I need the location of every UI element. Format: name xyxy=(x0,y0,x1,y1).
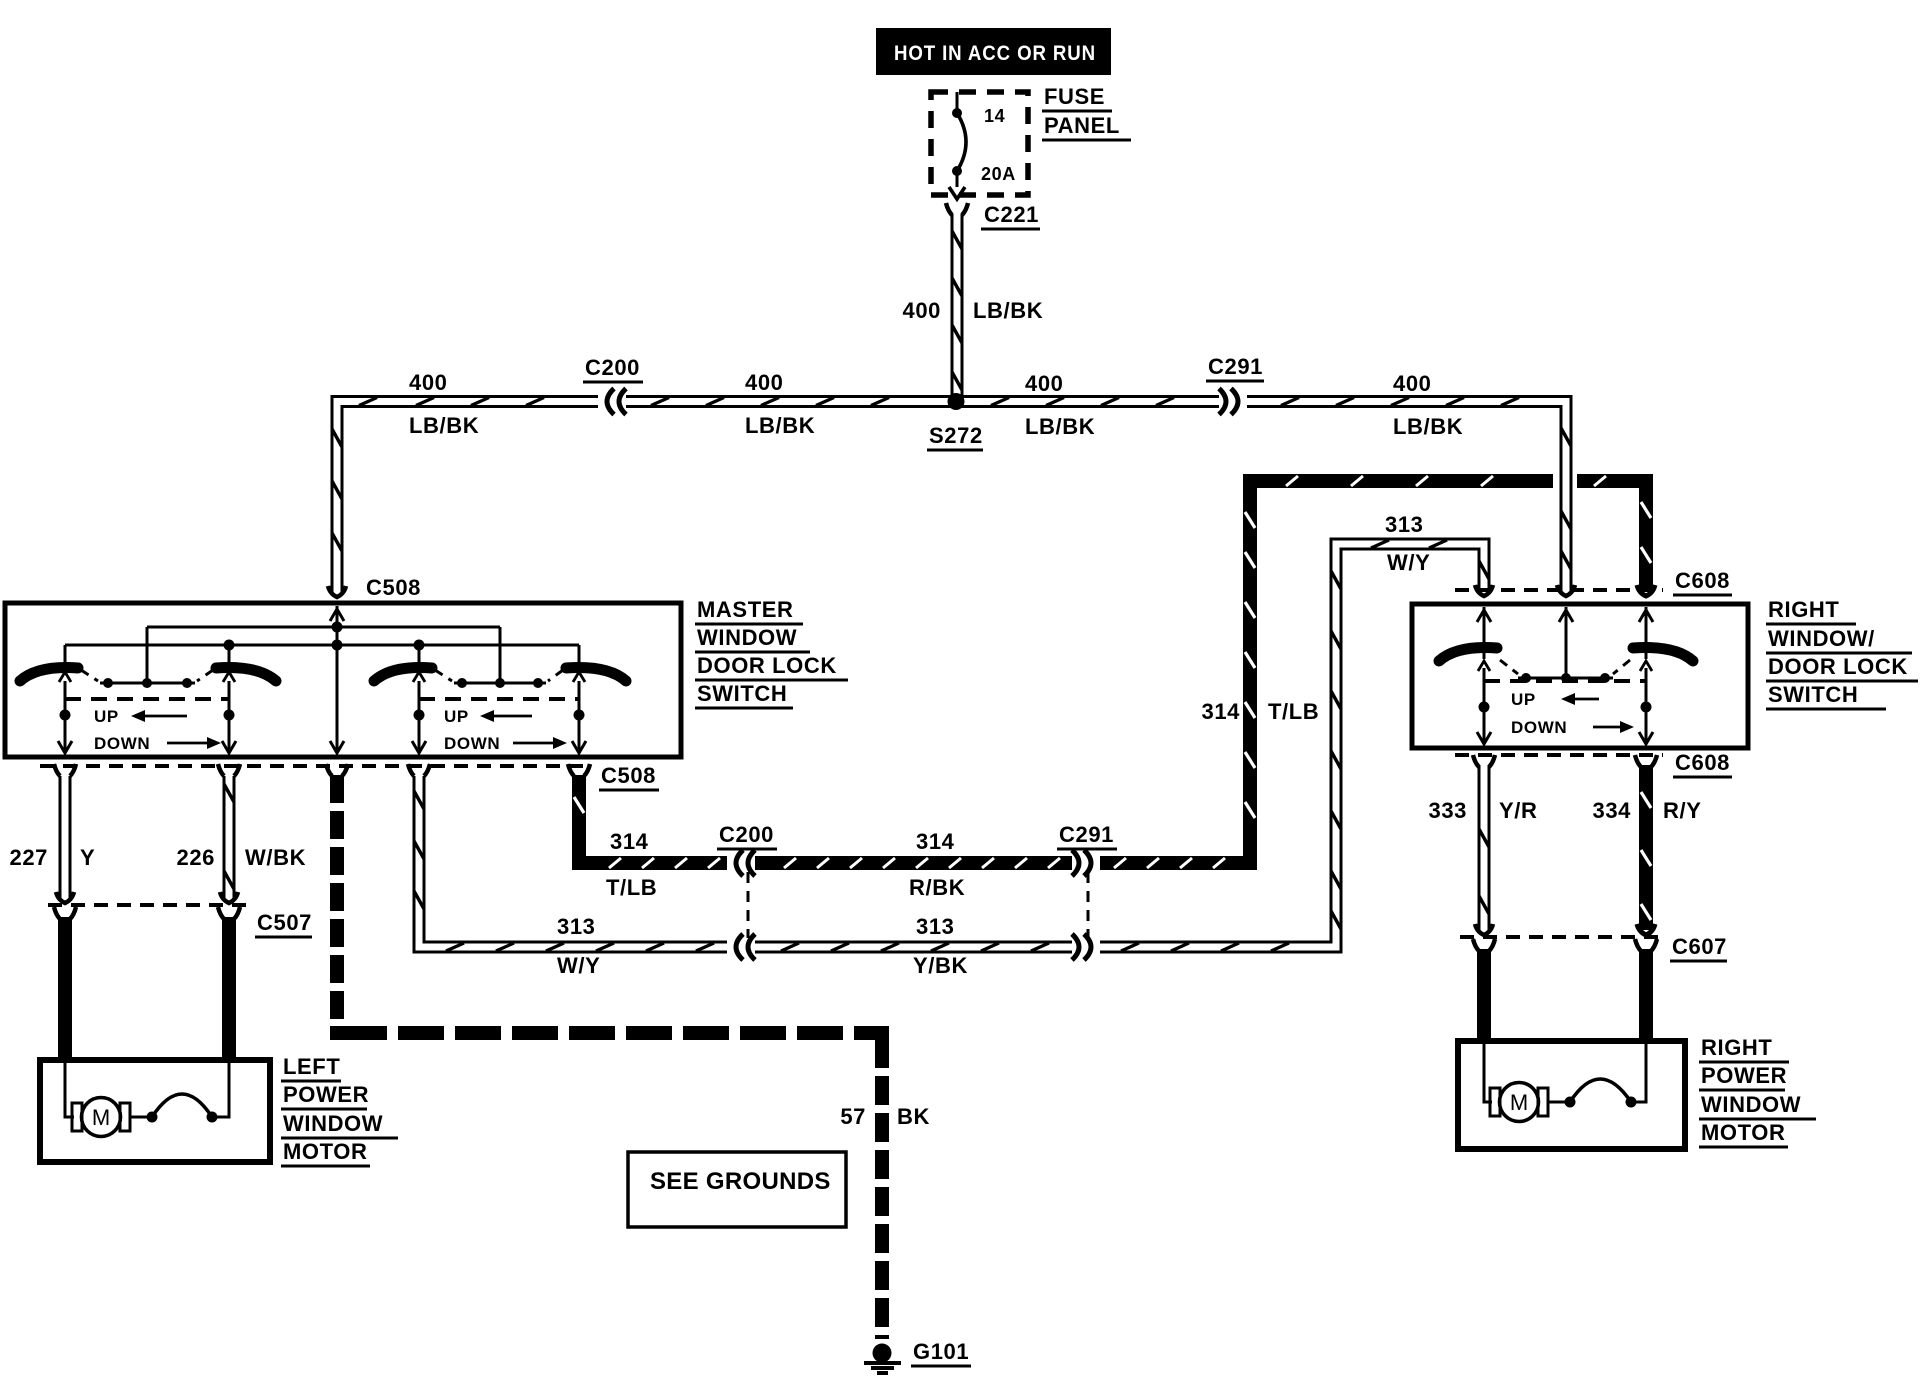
connector C291 on wire 314 xyxy=(1057,822,1117,876)
svg-text:BK: BK xyxy=(897,1104,930,1129)
wire 400 LB/BK vertical from fuse panel xyxy=(952,214,962,401)
svg-text:MASTER: MASTER xyxy=(697,597,794,622)
wire left motor feed (right) xyxy=(222,917,236,1062)
svg-text:M: M xyxy=(92,1105,110,1130)
label 334 R/Y xyxy=(1592,798,1701,823)
svg-text:W/Y: W/Y xyxy=(557,953,600,978)
switch wiper contacts xyxy=(59,627,235,688)
switch wiper contacts xyxy=(413,627,585,688)
svg-text:C508: C508 xyxy=(601,763,656,788)
connector C608 top row xyxy=(1455,568,1732,596)
label 400 LB/BK segment 4 xyxy=(1393,371,1463,439)
dashed tie C200 between rows xyxy=(747,872,750,938)
fuse F14 20A xyxy=(949,92,966,199)
svg-text:57: 57 xyxy=(840,1104,866,1129)
right switch rocker levers xyxy=(1439,648,1693,661)
svg-text:400: 400 xyxy=(745,370,784,395)
label RIGHT WINDOW/ DOOR LOCK SWITCH xyxy=(1766,597,1918,709)
svg-text:M: M xyxy=(1510,1090,1528,1115)
svg-text:C508: C508 xyxy=(366,575,421,600)
svg-text:RIGHT: RIGHT xyxy=(1768,597,1839,622)
svg-text:WINDOW: WINDOW xyxy=(1701,1092,1801,1117)
svg-text:G101: G101 xyxy=(913,1339,969,1364)
connector C291 on wire 313 xyxy=(1072,939,1100,955)
svg-text:313: 313 xyxy=(557,914,596,939)
connector C200 on bus xyxy=(583,355,643,415)
svg-text:20A: 20A xyxy=(981,164,1016,184)
master switch center output leg xyxy=(330,645,344,753)
connector C608 bottom row xyxy=(1455,750,1732,777)
svg-text:Y: Y xyxy=(80,845,95,870)
label 400 LB/BK (fuse drop) xyxy=(902,298,1043,323)
svg-text:334: 334 xyxy=(1592,798,1631,823)
switch rocker levers at x=65-229 xyxy=(20,668,276,681)
svg-text:DOWN: DOWN xyxy=(1511,718,1567,737)
right switch output legs xyxy=(1477,668,1653,744)
wire 333 Y/R xyxy=(1479,765,1489,930)
svg-text:LB/BK: LB/BK xyxy=(409,413,479,438)
svg-text:C291: C291 xyxy=(1208,354,1263,379)
svg-text:WINDOW: WINDOW xyxy=(697,625,797,650)
label FUSE PANEL xyxy=(1042,84,1131,140)
label 226 W/BK xyxy=(176,845,306,870)
svg-text:T/LB: T/LB xyxy=(606,875,657,900)
master window door lock switch U-master box xyxy=(5,603,681,757)
svg-text:400: 400 xyxy=(902,298,941,323)
svg-text:UP: UP xyxy=(444,707,469,726)
svg-text:MOTOR: MOTOR xyxy=(283,1139,367,1164)
label RIGHT POWER WINDOW MOTOR xyxy=(1699,1035,1816,1147)
connector C200 on wire 314 xyxy=(717,822,777,876)
svg-text:Y/BK: Y/BK xyxy=(913,953,968,978)
power feed banner HOT IN ACC OR RUN xyxy=(876,28,1111,75)
svg-text:LB/BK: LB/BK xyxy=(1393,414,1463,439)
label 314 R/BK xyxy=(909,829,965,900)
svg-text:UP: UP xyxy=(94,707,119,726)
wire 226 W/BK xyxy=(224,776,234,899)
svg-text:400: 400 xyxy=(409,370,448,395)
label 57 BK xyxy=(840,1104,930,1129)
svg-text:WINDOW/: WINDOW/ xyxy=(1768,626,1875,651)
wire 227 Y xyxy=(59,776,72,899)
svg-text:R/Y: R/Y xyxy=(1663,798,1701,823)
svg-text:R/BK: R/BK xyxy=(909,875,965,900)
ground G101 xyxy=(864,1339,971,1373)
label 313 W/Y (upper) xyxy=(1385,512,1430,575)
svg-text:227: 227 xyxy=(9,845,48,870)
svg-text:SWITCH: SWITCH xyxy=(1768,682,1858,707)
svg-text:RIGHT: RIGHT xyxy=(1701,1035,1772,1060)
label 313 Y/BK xyxy=(913,914,968,978)
right switch UP/DOWN arrows xyxy=(1511,690,1634,737)
svg-text:T/LB: T/LB xyxy=(1268,699,1319,724)
svg-text:LB/BK: LB/BK xyxy=(1025,414,1095,439)
note box SEE GROUNDS xyxy=(628,1152,846,1227)
svg-text:C221: C221 xyxy=(984,202,1039,227)
svg-text:C607: C607 xyxy=(1672,934,1727,959)
right switch wiper contacts xyxy=(1478,630,1652,683)
left power window motor M-left box xyxy=(40,1060,270,1162)
fuse panel box (dashed) xyxy=(931,92,1028,195)
svg-text:314: 314 xyxy=(916,829,955,854)
svg-text:C608: C608 xyxy=(1675,568,1730,593)
svg-text:14: 14 xyxy=(984,106,1005,126)
label 313 W/Y (lower) xyxy=(557,914,600,978)
svg-text:314: 314 xyxy=(1201,699,1240,724)
svg-text:W/BK: W/BK xyxy=(245,845,306,870)
svg-text:HOT IN ACC OR RUN: HOT IN ACC OR RUN xyxy=(894,42,1096,65)
splice S272 xyxy=(927,393,983,450)
svg-text:314: 314 xyxy=(610,829,649,854)
master switch UP/DOWN arrows right unit xyxy=(444,707,567,753)
connector C200 on wire 313 xyxy=(727,939,755,955)
connector C508 bottom row xyxy=(40,763,659,790)
svg-text:POWER: POWER xyxy=(1701,1063,1787,1088)
right power window motor M-right box xyxy=(1458,1041,1685,1149)
svg-text:WINDOW: WINDOW xyxy=(283,1111,383,1136)
svg-text:313: 313 xyxy=(1385,512,1424,537)
svg-text:400: 400 xyxy=(1025,371,1064,396)
svg-text:313: 313 xyxy=(916,914,955,939)
right switch entries xyxy=(1477,607,1653,630)
svg-text:DOOR LOCK: DOOR LOCK xyxy=(697,653,837,678)
motor M (left) symbol xyxy=(65,1063,229,1137)
wire 57 BK ground run xyxy=(330,775,889,1339)
svg-text:C507: C507 xyxy=(257,910,312,935)
svg-text:DOWN: DOWN xyxy=(444,734,500,753)
wire 400 LB/BK bus left/right with corners xyxy=(332,398,1571,593)
svg-text:C291: C291 xyxy=(1059,822,1114,847)
label 314 T/LB (riser) xyxy=(1201,699,1319,724)
svg-text:333: 333 xyxy=(1428,798,1467,823)
svg-text:MOTOR: MOTOR xyxy=(1701,1120,1785,1145)
svg-text:UP: UP xyxy=(1511,690,1536,709)
wire right motor feed (left) xyxy=(1477,949,1491,1043)
connector C507 xyxy=(48,892,312,937)
svg-text:C200: C200 xyxy=(719,822,774,847)
master switch UP/DOWN arrows left unit xyxy=(94,707,221,753)
svg-text:400: 400 xyxy=(1393,371,1432,396)
svg-text:FUSE: FUSE xyxy=(1044,84,1105,109)
svg-text:S272: S272 xyxy=(929,423,983,448)
label 400 LB/BK segment 3 xyxy=(1025,371,1095,439)
svg-text:C608: C608 xyxy=(1675,750,1730,775)
master switch internal feed bus xyxy=(65,606,579,651)
svg-text:LB/BK: LB/BK xyxy=(745,413,815,438)
dashed tie C291 between rows xyxy=(1087,872,1090,938)
motor M (right) symbol xyxy=(1484,1044,1646,1122)
switch rocker levers at x=419-579 xyxy=(374,668,626,681)
label 400 LB/BK segment 2 xyxy=(745,370,815,438)
connector C508 top xyxy=(328,575,421,602)
svg-text:DOWN: DOWN xyxy=(94,734,150,753)
label 400 LB/BK segment 1 xyxy=(409,370,479,438)
label 314 T/LB (row) xyxy=(606,829,657,900)
connector C291 on bus xyxy=(1206,354,1264,415)
connector C607 xyxy=(1460,924,1727,961)
svg-text:DOOR LOCK: DOOR LOCK xyxy=(1768,654,1908,679)
wire 314 T/LB / R/BK xyxy=(574,476,1651,868)
svg-text:POWER: POWER xyxy=(283,1082,369,1107)
wire left motor feed (left) xyxy=(58,917,72,1062)
wire 313 W/Y / Y/BK xyxy=(414,540,1489,951)
label LEFT POWER WINDOW MOTOR xyxy=(281,1054,398,1166)
connector C221 xyxy=(946,202,1040,229)
label 227 Y xyxy=(9,845,95,870)
right window door lock switch U-right box xyxy=(1412,604,1748,748)
svg-text:SEE GROUNDS: SEE GROUNDS xyxy=(650,1168,831,1195)
label MASTER WINDOW DOOR LOCK SWITCH xyxy=(695,597,848,708)
svg-text:W/Y: W/Y xyxy=(1387,550,1430,575)
svg-text:226: 226 xyxy=(176,845,215,870)
svg-text:C200: C200 xyxy=(585,355,640,380)
svg-text:LEFT: LEFT xyxy=(283,1054,340,1079)
label 333 Y/R xyxy=(1428,798,1537,823)
switch output legs xyxy=(58,681,236,753)
switch output legs xyxy=(412,681,586,753)
svg-text:LB/BK: LB/BK xyxy=(973,298,1043,323)
wire right motor feed (right) xyxy=(1639,949,1653,1043)
svg-text:Y/R: Y/R xyxy=(1499,798,1537,823)
svg-text:SWITCH: SWITCH xyxy=(697,681,787,706)
svg-text:PANEL: PANEL xyxy=(1044,113,1120,138)
wire 334 R/Y xyxy=(1641,765,1651,930)
